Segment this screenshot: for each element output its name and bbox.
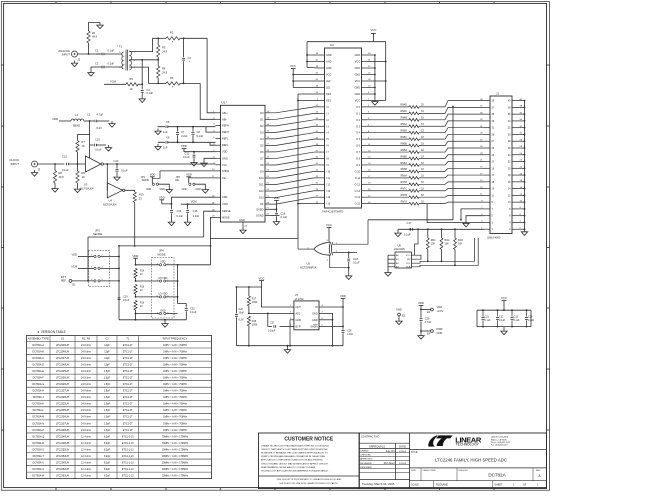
svg-text:REV: REV <box>536 470 541 472</box>
wire R7 top rail <box>78 133 90 135</box>
title block scale row <box>410 480 547 482</box>
title block date cell <box>359 479 409 481</box>
resistor RN4A 33 <box>367 125 409 127</box>
svg-text:D3: D3 <box>260 130 264 134</box>
svg-text:1MHz < A IN < 70MHz: 1MHz < A IN < 70MHz <box>163 357 187 360</box>
svg-text:8.2pF: 8.2pF <box>104 455 111 458</box>
svg-text:VDD: VDD <box>186 173 192 177</box>
svg-text:DC782A-Q: DC782A-Q <box>32 435 44 438</box>
svg-text:SCALE:: SCALE: <box>411 483 420 486</box>
svg-text:8.2pF: 8.2pF <box>104 461 111 464</box>
svg-text:0.1uF: 0.1uF <box>190 311 197 314</box>
svg-text:24.9 ohm: 24.9 ohm <box>81 396 91 399</box>
ground at E3 <box>396 319 402 325</box>
linear technology logo <box>428 435 452 446</box>
svg-text:LE1: LE1 <box>326 87 331 90</box>
wire U5 pin3 ground tie <box>330 256 349 268</box>
svg-text:R7: R7 <box>82 140 86 144</box>
U2 OE control bus <box>297 94 299 239</box>
U2 top loop left leg <box>306 42 308 68</box>
svg-text:PWR: PWR <box>437 327 443 331</box>
svg-text:BEAD: BEAD <box>73 124 80 128</box>
svg-text:24.9 ohm: 24.9 ohm <box>81 383 91 386</box>
svg-text:RN6A: RN6A <box>401 175 408 178</box>
svg-text:JP3: JP3 <box>95 229 100 233</box>
svg-text:LTC2246UH: LTC2246UH <box>56 435 69 438</box>
svg-text:VCC: VCC <box>259 276 265 280</box>
svg-text:VDD: VDD <box>160 261 165 264</box>
wire U3 output CLK line <box>103 163 215 165</box>
svg-text:LTC2253UH: LTC2253UH <box>56 475 69 478</box>
capacitor C18 0.1uF <box>348 252 350 258</box>
capacitor C5 4.7uF 6.3V <box>94 120 96 123</box>
svg-text:VDD: VDD <box>133 254 139 258</box>
svg-text:ETC1-1-13: ETC1-1-13 <box>122 455 134 458</box>
svg-text:OF: OF <box>260 202 264 206</box>
svg-text:GND: GND <box>326 54 332 57</box>
svg-text:1K: 1K <box>130 87 133 91</box>
svg-text:R1: R1 <box>92 31 96 35</box>
svg-text:LTC2246UH: LTC2246UH <box>56 344 69 347</box>
resistor RN5A 33 <box>367 151 409 153</box>
wire top rail to C2 and AIN+ <box>180 37 207 39</box>
svg-text:O 4: O 4 <box>356 132 361 135</box>
svg-text:SHDN: SHDN <box>310 325 317 328</box>
svg-text:DC782A-B: DC782A-B <box>33 350 45 353</box>
svg-text:GND: GND <box>239 219 245 222</box>
svg-text:1MHz < A IN < 70MHz: 1MHz < A IN < 70MHz <box>163 390 187 393</box>
svg-text:INPUT: INPUT <box>62 53 71 57</box>
svg-text:1.5pF: 1.5pF <box>104 377 111 380</box>
svg-text:0.1uF: 0.1uF <box>147 91 154 95</box>
svg-text:R5: R5 <box>130 77 134 81</box>
svg-text:70MHz < A IN < 170MHz: 70MHz < A IN < 170MHz <box>162 435 189 438</box>
svg-text:O 9: O 9 <box>356 164 361 167</box>
svg-text:4.7uF: 4.7uF <box>425 321 432 324</box>
JP4 right bus <box>177 265 179 304</box>
svg-text:DC782A-U: DC782A-U <box>32 461 44 464</box>
svg-text:74VHC16373MTD: 74VHC16373MTD <box>322 210 343 214</box>
resistor R5 1K <box>126 83 138 86</box>
svg-text:RN5A: RN5A <box>401 149 408 152</box>
svg-text:1MHz < A IN < 70MHz: 1MHz < A IN < 70MHz <box>163 383 187 386</box>
resistor RN4C 33 <box>367 112 409 114</box>
svg-text:1uF: 1uF <box>163 146 168 150</box>
svg-text:R3: R3 <box>162 46 166 50</box>
svg-text:ETC1-1T: ETC1-1T <box>123 409 133 412</box>
resistor RN6A 33 <box>367 177 409 179</box>
svg-text:1.5pF: 1.5pF <box>104 429 111 432</box>
svg-text:VCC: VCC <box>355 80 360 83</box>
resistor RN7D 33 <box>367 183 409 185</box>
svg-text:R6: R6 <box>170 76 174 80</box>
svg-text:* T1: * T1 <box>117 45 123 49</box>
svg-text:INPUT FREQUENCY: INPUT FREQUENCY <box>163 337 188 341</box>
svg-text:0.1uF: 0.1uF <box>62 168 69 172</box>
svg-text:ETC1-1T: ETC1-1T <box>123 390 133 393</box>
resistor RN7B 33 <box>367 196 409 198</box>
svg-text:C17: C17 <box>407 221 412 225</box>
resistor R9 1K <box>77 164 79 171</box>
svg-text:1630 McCarthy Blvd.: 1630 McCarthy Blvd. <box>491 436 509 439</box>
svg-text:D13: D13 <box>259 196 264 200</box>
wire E2 <box>421 309 431 311</box>
svg-text:O 14: O 14 <box>355 196 361 199</box>
wire OGND to C16 <box>271 214 280 216</box>
svg-text:1.5pF: 1.5pF <box>104 390 111 393</box>
svg-text:I 12: I 12 <box>326 183 331 186</box>
svg-text:RN4A: RN4A <box>401 123 408 126</box>
svg-text:R2, R6: R2, R6 <box>82 337 91 341</box>
svg-text:D5: D5 <box>260 143 264 147</box>
wire R1 branch <box>88 43 90 54</box>
svg-text:O 12: O 12 <box>355 183 361 186</box>
supply VDD at C16 <box>274 200 279 202</box>
wire U4 output to R10 <box>125 190 135 192</box>
resistor RN7A 33 <box>367 203 409 205</box>
svg-text:APPROVALS: APPROVALS <box>369 444 385 448</box>
svg-text:LTC2246UH: LTC2246UH <box>56 350 69 353</box>
svg-text:ETC1-1T: ETC1-1T <box>123 403 133 406</box>
svg-text:REFH: REFH <box>222 130 229 134</box>
svg-text:RN6C: RN6C <box>400 162 407 165</box>
capacitor C2 (starred) <box>183 38 185 57</box>
resistor RN6B 33 <box>367 170 409 172</box>
U2 right output pins O0-O15 <box>362 106 368 108</box>
resistor network RN1 10K <box>427 229 429 238</box>
svg-text:24.9 ohm: 24.9 ohm <box>81 429 91 432</box>
svg-text:24.9 ohm: 24.9 ohm <box>81 350 91 353</box>
svg-text:VCC: VCC <box>371 28 377 32</box>
svg-text:O 1: O 1 <box>356 112 361 115</box>
svg-text:0.1uF: 0.1uF <box>281 215 288 219</box>
svg-text:1MHz < A IN < 70MHz: 1MHz < A IN < 70MHz <box>163 403 187 406</box>
svg-text:VDD: VDD <box>222 195 228 199</box>
supply VCC at bypass bank <box>502 300 507 302</box>
svg-text:I 14: I 14 <box>326 196 331 199</box>
svg-text:24.9: 24.9 <box>162 49 168 53</box>
svg-text:OVDD: OVDD <box>256 208 263 211</box>
svg-text:Tuesday, March 01, 2005: Tuesday, March 01, 2005 <box>362 482 395 486</box>
svg-text:I 13: I 13 <box>326 190 331 193</box>
inverter U3 NC7SVU04 <box>86 156 102 172</box>
svg-text:100K: 100K <box>252 324 258 327</box>
svg-text:DC782A-J: DC782A-J <box>33 396 45 399</box>
svg-text:ETC1-1T: ETC1-1T <box>123 370 133 373</box>
ground at J1 bus <box>521 229 527 235</box>
svg-text:24.9: 24.9 <box>162 70 168 74</box>
capacitor C12 0.1uF <box>66 163 68 166</box>
svg-text:1MHz < A IN < 70MHz: 1MHz < A IN < 70MHz <box>163 370 187 373</box>
svg-text:U7: U7 <box>295 293 299 297</box>
svg-text:0.1uF: 0.1uF <box>121 169 128 173</box>
svg-text:VDD: VDD <box>181 144 187 148</box>
svg-text:DC782A-A: DC782A-A <box>33 344 45 347</box>
svg-text:J1: J1 <box>496 92 499 96</box>
svg-text:8.2pF: 8.2pF <box>104 435 111 438</box>
svg-text:2/3 VDD: 2/3 VDD <box>158 277 167 280</box>
svg-text:C18: C18 <box>353 257 358 261</box>
svg-text:ETC1-1T: ETC1-1T <box>123 377 133 380</box>
svg-text:1.5pF: 1.5pF <box>104 422 111 425</box>
svg-text:10uF: 10uF <box>239 312 245 315</box>
svg-text:1/3 VDD: 1/3 VDD <box>158 293 167 296</box>
capacitor C19 0.1uF <box>118 297 121 299</box>
ground at C14 <box>168 220 174 226</box>
svg-text:1K: 1K <box>82 175 85 179</box>
title block contract cell <box>358 433 360 489</box>
svg-text:NC7SVU04: NC7SVU04 <box>103 202 117 206</box>
svg-text:C6: C6 <box>166 120 170 124</box>
svg-text:0.1uF: 0.1uF <box>95 147 102 151</box>
svg-text:OE1: OE1 <box>326 100 332 103</box>
wire U6 WP <box>412 255 422 259</box>
svg-text:OE2: OE2 <box>326 93 332 96</box>
ground at C15 <box>184 220 190 226</box>
wire VDD to L1 <box>59 120 71 122</box>
U2 left VCC/LE bus <box>292 69 294 88</box>
svg-text:VDD: VDD <box>159 195 165 199</box>
svg-text:12.4 ohm: 12.4 ohm <box>81 435 91 438</box>
svg-text:JP2: JP2 <box>176 175 181 179</box>
svg-text:VCC: VCC <box>355 100 360 103</box>
svg-text:1K: 1K <box>140 273 143 276</box>
svg-text:R10: R10 <box>139 193 144 197</box>
svg-text:RN5B: RN5B <box>401 142 408 145</box>
wire L1 to node <box>84 120 94 122</box>
svg-text:DC782A-T: DC782A-T <box>33 455 45 458</box>
wire J1 pin7 <box>461 209 484 220</box>
wire SDA bus <box>412 238 479 267</box>
svg-text:GND: GND <box>326 67 332 70</box>
terminal E3 <box>398 313 401 316</box>
svg-text:Milpitas, CA 95035: Milpitas, CA 95035 <box>491 438 507 441</box>
xor gate U5 NC7SV86P5X <box>314 242 331 255</box>
svg-text:1MHz < A IN < 70MHz: 1MHz < A IN < 70MHz <box>163 409 187 412</box>
svg-text:NC7SV86P5X: NC7SV86P5X <box>300 265 317 269</box>
svg-text:8.2pF: 8.2pF <box>104 442 111 445</box>
svg-text:O 2: O 2 <box>356 119 361 122</box>
wire VCM to R5 <box>104 83 126 85</box>
U1 right pins D0-D13 OF <box>265 112 271 114</box>
svg-text:1.5pF: 1.5pF <box>104 383 111 386</box>
ground at C11 <box>191 160 197 166</box>
svg-text:0.1uF: 0.1uF <box>177 214 184 218</box>
U2 right GND bus <box>374 55 376 99</box>
svg-text:VCM: VCM <box>222 202 228 206</box>
svg-text:SHEET: SHEET <box>495 483 504 486</box>
svg-text:VDD: VDD <box>72 253 78 257</box>
svg-text:LTC2226UH: LTC2226UH <box>56 383 69 386</box>
capacitor C9 1uF <box>155 144 161 150</box>
svg-text:C4: C4 <box>147 88 151 92</box>
svg-text:LTC2255UH: LTC2255UH <box>56 448 69 451</box>
svg-text:Fax: (408)434-0507: Fax: (408)434-0507 <box>491 445 508 447</box>
wire JP1 to ground <box>159 184 170 187</box>
wire OE tap <box>189 177 216 179</box>
border zone ticks right <box>547 64 550 66</box>
svg-text:APPLICATION. COMPONENT SUBSTIT: APPLICATION. COMPONENT SUBSTITUTION AND … <box>261 459 323 462</box>
svg-text:LTC2247UH: LTC2247UH <box>56 357 69 360</box>
wire U5 input1 clock <box>333 220 368 244</box>
svg-text:U4: U4 <box>109 199 113 203</box>
capacitor C10 0.1uF <box>90 144 94 146</box>
svg-text:10K: 10K <box>445 243 450 246</box>
svg-text:VCM: VCM <box>191 199 197 203</box>
svg-text:DC782A-M: DC782A-M <box>32 416 44 419</box>
svg-text:D8: D8 <box>260 163 264 167</box>
ground at C3 <box>88 70 94 76</box>
node top rail <box>158 37 166 39</box>
wire BYP to C27 <box>268 313 272 326</box>
svg-text:1uF: 1uF <box>163 130 168 134</box>
svg-text:LT1763: LT1763 <box>295 297 304 301</box>
title block title row <box>410 448 547 450</box>
svg-text:OUT: OUT <box>296 306 302 309</box>
svg-text:GND: GND <box>437 331 443 335</box>
svg-text:VDD: VDD <box>150 173 156 177</box>
svg-text:C27: C27 <box>270 322 275 325</box>
svg-text:O 13: O 13 <box>355 190 361 193</box>
resistor R4 24.9 <box>157 66 160 78</box>
resistor RN6C 33 <box>367 164 409 166</box>
svg-text:RN4B: RN4B <box>401 117 408 120</box>
svg-text:DC782A-R: DC782A-R <box>32 442 44 445</box>
svg-text:DC782A-N: DC782A-N <box>32 422 44 425</box>
J1 pins <box>484 100 491 102</box>
svg-text:0.1uF: 0.1uF <box>514 319 521 322</box>
resistor R17 105K <box>248 287 250 296</box>
svg-text:VCM: VCM <box>110 80 116 84</box>
resistor R3 24.9 <box>157 45 160 57</box>
svg-text:ETC1-1-13: ETC1-1-13 <box>122 468 134 471</box>
resistor R2 (starred) <box>166 37 180 40</box>
capacitor C13 0.1uF <box>116 164 118 169</box>
ground at C13 <box>114 175 120 181</box>
svg-text:D12: D12 <box>259 189 264 193</box>
svg-text:MODE: MODE <box>222 216 230 220</box>
ground above R1 <box>97 23 103 29</box>
U6 left stubs <box>388 254 395 256</box>
capacitor C21 0.1uF <box>482 310 484 316</box>
JP4 bottom rail <box>119 319 186 321</box>
supply VDD at U1 pin7 with C11 <box>182 148 187 150</box>
svg-text:NC7SVU04: NC7SVU04 <box>80 186 94 190</box>
ground at R9 <box>74 187 80 193</box>
svg-text:RN7D: RN7D <box>400 181 407 184</box>
ground at U1 GND <box>240 228 246 234</box>
U2 right control pins <box>362 54 368 56</box>
svg-text:1MHz < A IN < 70MHz: 1MHz < A IN < 70MHz <box>163 416 187 419</box>
svg-text:GND: GND <box>354 74 360 77</box>
supply VDD at JP4 <box>133 257 138 259</box>
svg-text:REFL: REFL <box>222 137 229 141</box>
svg-text:EXT: EXT <box>61 275 66 279</box>
svg-text:0.1uF: 0.1uF <box>499 319 506 322</box>
svg-text:O 6: O 6 <box>356 145 361 148</box>
wire VDD to pin32 <box>162 197 216 204</box>
svg-text:C9: C9 <box>166 136 170 140</box>
svg-text:LE2: LE2 <box>326 80 331 83</box>
svg-text:1MHz < A IN < 70MHz: 1MHz < A IN < 70MHz <box>163 363 187 366</box>
svg-text:24LC025: 24LC025 <box>394 247 405 251</box>
wire OVDD to VCC <box>271 201 277 210</box>
JP3 common rail <box>118 246 120 320</box>
svg-text:RN3: RN3 <box>458 239 463 242</box>
svg-text:D2: D2 <box>260 124 264 128</box>
bypass bank rails <box>477 309 531 311</box>
svg-text:LTC2238UH: LTC2238UH <box>56 429 69 432</box>
ground at C16 <box>273 219 279 225</box>
svg-text:DC782A-K: DC782A-K <box>33 403 45 406</box>
svg-text:ETC1-1T: ETC1-1T <box>123 396 133 399</box>
U1 left pins <box>216 112 221 114</box>
svg-text:1MHz < A IN < 70MHz: 1MHz < A IN < 70MHz <box>163 344 187 347</box>
svg-text:HOWEVER, IT REMAINS THE CUSTOM: HOWEVER, IT REMAINS THE CUSTOMER'S RESPO… <box>261 452 328 455</box>
resistor network RN3 10K <box>454 229 456 238</box>
capacitor C6 1uF <box>155 129 161 135</box>
svg-text:C12: C12 <box>62 155 67 159</box>
svg-text:C13: C13 <box>114 159 119 163</box>
svg-text:0.1uF: 0.1uF <box>183 155 190 159</box>
svg-text:6.3V: 6.3V <box>97 126 103 130</box>
svg-text:WP: WP <box>407 259 411 261</box>
wire REFL jog to pin6 <box>210 142 216 145</box>
svg-text:DWG NO: DWG NO <box>459 470 469 472</box>
svg-text:ETC1-1-13: ETC1-1-13 <box>122 435 134 438</box>
ground at C4 <box>139 96 145 102</box>
customer notice box <box>259 433 360 489</box>
U6 left ground bus <box>387 255 389 270</box>
svg-text:D9: D9 <box>260 169 264 173</box>
svg-text:DC782A-C: DC782A-C <box>32 357 44 360</box>
svg-text:LTC2228UH: LTC2228UH <box>56 396 69 399</box>
svg-text:12pF: 12pF <box>104 363 110 366</box>
svg-text:C8: C8 <box>197 130 201 134</box>
svg-text:12pF: 12pF <box>104 344 110 347</box>
svg-text:49.9: 49.9 <box>92 35 98 39</box>
resistor RN5B 33 <box>367 145 409 147</box>
svg-text:LTC2248UH: LTC2248UH <box>56 363 69 366</box>
svg-text:GND: GND <box>312 319 318 322</box>
svg-text:SHDN: SHDN <box>222 169 229 173</box>
svg-text:CIRCUIT BOARD LAYOUT MAY SIGNI: CIRCUIT BOARD LAYOUT MAY SIGNIFICANTLY A… <box>261 462 329 465</box>
connector J2 analog input BNC <box>72 51 78 57</box>
svg-text:REFL: REFL <box>222 143 229 147</box>
version table grid <box>27 336 212 479</box>
svg-text:GND: GND <box>296 319 302 322</box>
svg-text:SENSE: SENSE <box>222 209 231 213</box>
resistor R16 1K <box>134 301 137 311</box>
jumper JP3 block <box>89 251 110 287</box>
svg-text:O 3: O 3 <box>356 125 361 128</box>
svg-text:TECHNOLOGY: TECHNOLOGY <box>456 443 480 447</box>
svg-text:GND: GND <box>160 309 166 312</box>
wire T1 pin2 center tap <box>129 59 158 61</box>
svg-text:★ VERSION TABLE: ★ VERSION TABLE <box>37 330 66 334</box>
wire SHDN tap <box>152 171 160 178</box>
svg-text:1.5pF: 1.5pF <box>104 403 111 406</box>
wire U5 input2 <box>333 251 357 253</box>
wire AIN- vertical <box>200 83 215 119</box>
svg-text:GND: GND <box>196 188 202 191</box>
jumper JP4 block <box>151 258 174 318</box>
svg-text:ETC1-1-13: ETC1-1-13 <box>122 461 134 464</box>
svg-text:SHDN: SHDN <box>141 178 148 182</box>
svg-text:VDD: VDD <box>437 305 443 309</box>
svg-text:O 11: O 11 <box>355 177 361 180</box>
svg-text:I 15: I 15 <box>326 203 331 206</box>
